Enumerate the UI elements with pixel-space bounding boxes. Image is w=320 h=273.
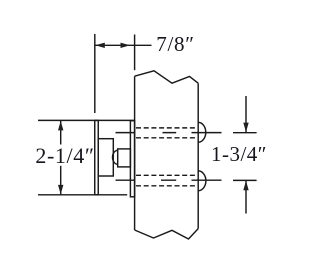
screw 2 centerline segments xyxy=(116,179,222,181)
svg-text:7/8″: 7/8″ xyxy=(156,32,194,56)
screw 1 hidden shaft bottom line xyxy=(136,137,198,139)
lock body xyxy=(98,139,113,176)
extension tick: top of 1-3/4 dim xyxy=(233,132,257,134)
boss arc between body and thumbturn xyxy=(112,150,117,164)
arrowhead down of 1-3/4 upper xyxy=(243,123,248,133)
arrowhead right of 7/8 xyxy=(121,43,131,48)
screw 1 hidden shaft top line xyxy=(136,127,198,129)
arrowhead up of 2-1/4 xyxy=(58,121,63,130)
bar right edge xyxy=(197,83,199,228)
svg-text:1-3/4″: 1-3/4″ xyxy=(211,142,267,166)
arrowhead up of 1-3/4 lower xyxy=(243,181,248,191)
bar bottom break line xyxy=(135,229,199,239)
extension line: top of 2-1/4 dim xyxy=(38,119,135,121)
dimension line 1-3/4 upper segment xyxy=(245,96,247,132)
mounting flange on bar face xyxy=(130,121,134,197)
screw 2 hidden shaft bottom line xyxy=(136,185,198,187)
bar top break line xyxy=(135,71,199,83)
dimension line 2-1/4 upper segment xyxy=(60,121,62,145)
bar left edge xyxy=(134,76,136,230)
mounting plate (side view, tall thin) xyxy=(95,120,99,194)
screw 1 centerline segments xyxy=(116,132,222,134)
dimension line 2-1/4 lower segment xyxy=(60,166,62,195)
screw 2 hidden shaft top line xyxy=(136,174,198,176)
dimension line 1-3/4 lower segment xyxy=(245,181,247,214)
extension line: left of 7/8 dim (plate outer face) xyxy=(94,34,96,113)
svg-text:2-1/4″: 2-1/4″ xyxy=(35,143,94,168)
screw 2 head arc xyxy=(198,171,206,191)
arrowhead down of 2-1/4 xyxy=(58,185,63,195)
extension line: bottom of 2-1/4 dim xyxy=(38,194,127,196)
extension line: right of 7/8 dim (bar left face) xyxy=(134,35,136,71)
thumbturn hub xyxy=(118,149,131,167)
extension tick: bottom of 1-3/4 dim xyxy=(233,179,257,181)
screw 1 head arc xyxy=(198,122,206,142)
dimension line 7/8 with leader to text xyxy=(95,44,152,46)
arrowhead left of 7/8 xyxy=(95,43,105,48)
